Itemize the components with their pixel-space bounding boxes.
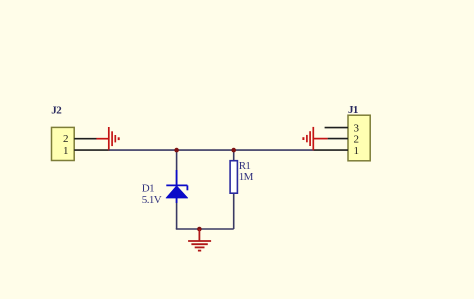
svg-text:3: 3 [353, 122, 359, 134]
connector J2 body [52, 127, 75, 160]
junction node at ground [197, 227, 202, 232]
pin 3 of J1 [325, 127, 348, 129]
pin 2 of J2 [74, 138, 96, 140]
wire: resistor branch vertical [233, 150, 235, 229]
zener diode D1 [166, 170, 188, 203]
earth ground symbol bottom [188, 229, 211, 251]
chassis earth symbol left [96, 127, 118, 150]
pin 1 of J1 [314, 149, 349, 151]
wire: diode branch vertical [176, 150, 178, 229]
svg-text:J2: J2 [51, 105, 62, 117]
chassis earth symbol right [303, 127, 327, 150]
svg-text:1: 1 [353, 145, 358, 157]
svg-text:J1: J1 [348, 104, 358, 116]
junction node at diode branch [174, 148, 179, 153]
pin 2 of J1 [328, 138, 348, 140]
svg-text:5.1V: 5.1V [142, 194, 162, 206]
connector J1 body [348, 115, 370, 161]
svg-text:D1: D1 [142, 183, 154, 195]
svg-text:2: 2 [353, 134, 358, 146]
svg-text:1: 1 [63, 145, 68, 157]
junction node at resistor branch [231, 148, 236, 153]
svg-text:2: 2 [63, 133, 68, 145]
wire: bottom horizontal net [176, 228, 234, 230]
svg-text:R1: R1 [239, 160, 251, 172]
pin 1 of J2 [74, 149, 109, 151]
resistor R1 [230, 161, 237, 194]
wire: main horizontal net [109, 149, 314, 151]
svg-text:1M: 1M [239, 171, 254, 183]
